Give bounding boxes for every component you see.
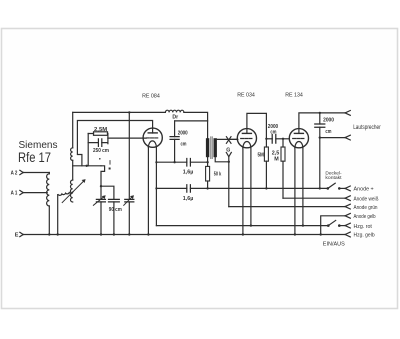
antenna coil L1 [47,173,51,236]
svg-text:E: E [15,233,19,239]
wire row1 with capacitor C5 1.6u [155,159,209,167]
variometer arrow [62,179,85,203]
switch contact in grid line [99,158,111,186]
svg-text:1,6µ: 1,6µ [183,196,194,202]
wire Hzg rot row with EIN/AUS switch [156,220,350,228]
variometer coupling coil L2b [57,192,73,236]
capacitor C8 2000cm speaker [315,113,325,139]
svg-text:RE 134: RE 134 [285,93,303,99]
RE034 anode wire [247,113,268,140]
terminal E [20,232,23,236]
loudspeaker lower wire [320,135,351,140]
svg-text:50 k: 50 k [214,171,221,177]
tuning coil / variometer main L2 [71,112,73,202]
resistor R2 50k [206,166,210,189]
svg-text:Hzg. rot: Hzg. rot [354,224,373,230]
Deckelkontakt switch [327,183,351,191]
svg-text:G: G [226,147,230,153]
resistor R4 2.5M [281,139,285,198]
svg-text:cm: cm [325,129,331,135]
terminal A2 [20,170,50,174]
tube RE034 V2 [237,129,256,148]
wire jog to fixed capacitor [100,185,114,199]
node line at grid leak bottom [73,165,101,167]
grid leak block: resistor R1 2.5M with capacitor 250cm [88,132,146,166]
svg-text:RE 034: RE 034 [237,93,255,99]
RE134 filament legs [294,148,304,236]
wire row Anode+ with capacitor C6 1.6u [155,185,328,193]
svg-text:M: M [274,156,279,162]
variable capacitor C1 [93,186,105,236]
wire E / Hzg gelb rail [23,234,345,236]
RE134 anode wire to loudspeaker [299,111,350,134]
svg-text:kontakt: kontakt [325,175,342,181]
RE034 grid wire [229,138,238,140]
svg-text:Rfe 17: Rfe 17 [18,149,51,165]
svg-text:EIN/AUS: EIN/AUS [323,241,345,247]
RE034 filament legs [242,148,252,236]
jack G top [226,137,231,144]
Hzg gelb socket [345,232,350,237]
tube RE084 V1 [143,128,162,147]
terminal A1 [20,190,47,194]
svg-text:cm: cm [270,129,276,135]
variable capacitor C3 [124,111,134,235]
svg-text:1,6µ: 1,6µ [183,169,194,175]
top rail [73,112,208,138]
RE084 filament legs [147,147,156,236]
svg-text:5M: 5M [258,153,265,159]
capacitor C4 2000cm [170,121,208,163]
jack G bottom [226,152,231,163]
wire speaker return to Anode+ [319,138,321,190]
wire Anode gruen row [229,204,350,209]
wire secondary bottom to Anode gruen [228,162,230,207]
fixed capacitor C2 [109,199,120,235]
svg-text:Anode weiß: Anode weiß [354,196,379,202]
svg-text:Anode gelb: Anode gelb [354,214,376,220]
resistor R3 5M [264,139,268,190]
choke Dr [165,110,183,112]
svg-text:Hzg. gelb: Hzg. gelb [354,233,375,239]
svg-text:250 cm: 250 cm [93,148,109,154]
tube RE134 V3 [289,129,308,148]
coupling capacitor C7 2000cm [266,135,289,144]
svg-text:A 2: A 2 [11,171,18,177]
svg-text:2000: 2000 [178,131,188,137]
svg-text:Lautsprecher: Lautsprecher [353,125,381,131]
svg-text:A 1: A 1 [11,191,18,197]
svg-text:RE 084: RE 084 [142,94,160,100]
transformer T1 [206,137,238,167]
svg-text:Anode +: Anode + [354,187,375,193]
svg-text:cm: cm [181,141,187,147]
anode feedback wire from RE084 [77,121,152,166]
svg-text:2000: 2000 [323,117,334,123]
svg-text:Anode grün: Anode grün [354,205,378,211]
svg-text:Dr: Dr [172,114,178,120]
svg-text:2,5M: 2,5M [94,127,108,133]
svg-text:90 cm: 90 cm [109,207,122,213]
wire Anode gelb row [320,213,351,235]
wire Anode weiss row [283,196,350,201]
